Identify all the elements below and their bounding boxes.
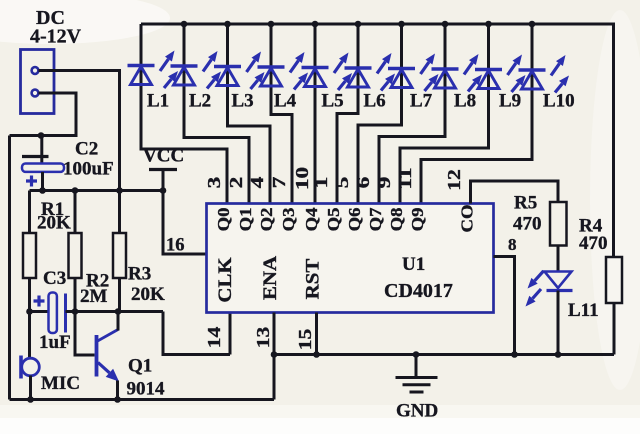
- wire LED anode bus / right edge to R4: [141, 24, 614, 257]
- LED L7: [388, 54, 439, 92]
- svg-text:16: 16: [166, 236, 185, 256]
- wire MIC bottom lead: [29, 376, 32, 400]
- svg-text:7: 7: [269, 177, 290, 189]
- svg-text:2: 2: [226, 177, 247, 189]
- svg-text:11: 11: [395, 167, 416, 189]
- wire R1 top lead: [28, 191, 31, 234]
- wire LED L2 to pin 2: [184, 24, 249, 204]
- node bus/L8 junction: [442, 21, 449, 28]
- wire LED L10 to pin 11: [421, 24, 532, 204]
- LED L8: [432, 54, 483, 92]
- svg-text:Q1: Q1: [128, 356, 152, 377]
- node bus/L6 junction: [355, 21, 362, 28]
- svg-text:L4: L4: [274, 91, 297, 112]
- node MIC/ground junction: [27, 396, 34, 403]
- node bus/L9 junction: [485, 21, 492, 28]
- svg-text:Q2: Q2: [257, 207, 276, 231]
- LED L10: [519, 55, 570, 93]
- capacitor C2 polarity +: [26, 176, 37, 187]
- transistor Q1 base bar: [95, 335, 99, 377]
- svg-text:R3: R3: [128, 264, 151, 285]
- wire pin15 (RST) lead: [315, 313, 318, 355]
- wire DC+ to V+ rail: [39, 71, 120, 191]
- op-amp U1 CD4017 body: [207, 204, 494, 313]
- wire LED L8 to pin 6: [379, 24, 445, 204]
- svg-text:Q3: Q3: [279, 207, 298, 231]
- microphone MIC body: [22, 358, 40, 376]
- background light top-left patch: [0, 0, 170, 44]
- transistor Q1 collector stroke: [98, 330, 119, 342]
- resistor R5 body: [550, 202, 567, 246]
- svg-text:1: 1: [311, 177, 332, 189]
- svg-text:20K: 20K: [131, 284, 165, 305]
- wire DC- to ground-left rail: [10, 93, 77, 136]
- LED L6: [345, 53, 396, 91]
- wire LED L3 to pin 4: [228, 24, 271, 204]
- svg-text:10: 10: [292, 167, 313, 190]
- svg-text:Q9: Q9: [408, 207, 427, 231]
- resistor R3 body: [113, 233, 126, 278]
- node bus/L4 junction: [268, 21, 275, 28]
- wire L11 to ground: [557, 291, 560, 355]
- LED L1: [128, 51, 179, 89]
- svg-text:470: 470: [513, 214, 542, 235]
- wire Q1 base lead: [75, 312, 95, 356]
- wire bottom-left ground rail: [10, 398, 275, 401]
- node R1/C3 junction: [26, 308, 33, 315]
- svg-text:GND: GND: [396, 401, 438, 422]
- LED L3: [214, 52, 265, 90]
- svg-text:ENA: ENA: [260, 255, 281, 300]
- wire LED L9 to pin 9: [400, 24, 489, 204]
- node GND junction: [413, 351, 420, 358]
- node pin8/ground junction: [511, 351, 518, 358]
- svg-text:L8: L8: [454, 91, 476, 112]
- svg-text:Q4: Q4: [302, 207, 321, 231]
- wire C2 bottom lead: [41, 172, 44, 191]
- svg-text:L11: L11: [568, 300, 599, 321]
- svg-text:20K: 20K: [37, 213, 71, 234]
- node emitter/ground junction: [114, 396, 121, 403]
- svg-text:L5: L5: [322, 91, 344, 112]
- node bus/L3 junction: [224, 21, 231, 28]
- wire R3 bottom lead: [118, 278, 121, 312]
- wire C2 top lead: [40, 136, 43, 164]
- svg-text:3: 3: [204, 177, 225, 189]
- svg-text:C3: C3: [43, 268, 66, 289]
- LED L2: [171, 51, 222, 89]
- wire V+ rail: [30, 189, 164, 192]
- wire R4 bottom lead: [613, 303, 616, 355]
- svg-text:CD4017: CD4017: [384, 280, 453, 302]
- wire pin13 (ENA) lead: [273, 313, 276, 400]
- wire C3 left lead: [30, 310, 49, 313]
- svg-text:L1: L1: [147, 91, 169, 112]
- node VCC junction: [160, 187, 167, 194]
- svg-text:14: 14: [205, 327, 225, 349]
- svg-text:CLK: CLK: [215, 257, 236, 303]
- connector J1 pin + (top circle): [32, 67, 39, 74]
- node bus/L10 junction: [529, 21, 536, 28]
- wire pin12 (CO) to R5: [471, 181, 559, 204]
- wire left edge (ground down-left): [8, 136, 11, 400]
- node R3/collector junction: [115, 308, 122, 315]
- svg-text:Q8: Q8: [387, 207, 406, 231]
- svg-text:L2: L2: [189, 91, 211, 112]
- node DC+/R3 junction: [116, 187, 123, 194]
- wire Q1 emitter lead: [116, 381, 119, 400]
- capacitor C2 bottom plate (hollow +): [22, 164, 64, 172]
- wire R1 bottom lead: [28, 278, 31, 312]
- svg-text:15: 15: [296, 329, 316, 351]
- svg-text:12: 12: [445, 169, 465, 191]
- svg-text:4-12V: 4-12V: [30, 26, 82, 48]
- svg-text:L6: L6: [364, 91, 386, 112]
- wire to pin14 (CLK): [163, 312, 230, 355]
- svg-text:Q6: Q6: [345, 207, 364, 231]
- svg-text:Q7: Q7: [366, 207, 385, 231]
- wire pin14 lead: [229, 313, 232, 355]
- svg-text:U1: U1: [402, 254, 425, 275]
- svg-text:13: 13: [254, 327, 274, 349]
- node bus/L7 junction: [398, 21, 405, 28]
- node bus/L2 junction: [181, 21, 188, 28]
- node bus/L5 junction: [312, 21, 319, 28]
- resistor R4 body: [606, 257, 622, 303]
- node R2 top junction: [72, 187, 79, 194]
- wire LED L6 to pin 1: [337, 24, 358, 204]
- svg-text:9014: 9014: [127, 379, 166, 400]
- node C2/V+ junction: [39, 187, 46, 194]
- capacitor C2 top plate (solid): [22, 155, 49, 158]
- ground GND hatches: [396, 378, 438, 393]
- svg-text:4: 4: [247, 176, 268, 188]
- wire LED L7 to pin 5: [358, 24, 402, 204]
- svg-text:470: 470: [579, 233, 608, 254]
- connector J1 pin - (bottom circle): [32, 90, 39, 97]
- svg-text:8: 8: [508, 235, 517, 254]
- node C2 top junction: [38, 132, 45, 139]
- LED L9: [475, 55, 526, 93]
- svg-text:CO: CO: [457, 204, 476, 232]
- wire R2-R3 horizontal: [75, 310, 163, 313]
- connector J1 (DC input): [21, 50, 55, 114]
- svg-text:Q0: Q0: [214, 207, 233, 231]
- wire ground mid rail: [274, 353, 614, 356]
- svg-text:L3: L3: [232, 91, 254, 112]
- resistor R2 body: [69, 233, 82, 278]
- wire R3 top lead: [118, 191, 121, 234]
- wire R5 to L11: [557, 246, 560, 273]
- node R2/C3/base junction: [72, 308, 79, 315]
- svg-text:2M: 2M: [80, 286, 108, 307]
- capacitor C3 left plate (hollow +): [49, 293, 57, 334]
- ground GND stem: [415, 355, 418, 377]
- LED L5: [302, 53, 353, 91]
- svg-text:L10: L10: [543, 91, 575, 112]
- svg-text:6: 6: [353, 177, 374, 189]
- microphone MIC back plate: [19, 356, 23, 379]
- svg-text:MIC: MIC: [41, 373, 80, 394]
- svg-text:RST: RST: [303, 258, 324, 299]
- node pin13/ground junction: [271, 351, 278, 358]
- wire pin16 (VDD) to IC: [163, 191, 207, 255]
- svg-text:L9: L9: [499, 91, 521, 112]
- capacitor C3 polarity +: [34, 296, 45, 307]
- wire VCC stem: [162, 170, 165, 191]
- wire LED L5 / pin 10 lead: [314, 24, 317, 204]
- wire LED L1 to pin 3: [141, 24, 227, 204]
- node pin15/ground junction: [313, 351, 320, 358]
- LED L11: [526, 271, 573, 307]
- background white bottom band: [0, 418, 640, 434]
- VCC symbol bar: [149, 168, 177, 171]
- wire LED L4 to pin 7: [271, 24, 292, 204]
- wire MIC top lead: [28, 312, 31, 359]
- svg-text:100uF: 100uF: [63, 159, 114, 180]
- LED L4: [258, 52, 309, 90]
- svg-text:Q1: Q1: [236, 208, 255, 232]
- svg-text:5: 5: [332, 177, 353, 189]
- resistor R1 body: [23, 233, 36, 278]
- wire C3 right lead: [66, 310, 76, 313]
- svg-text:1uF: 1uF: [39, 332, 71, 353]
- svg-text:R5: R5: [514, 193, 537, 214]
- transistor Q1 emitter stroke with arrow: [98, 363, 119, 382]
- svg-text:C2: C2: [75, 139, 98, 160]
- svg-text:9: 9: [374, 177, 395, 189]
- capacitor C3 right plate (solid): [64, 294, 67, 333]
- node L11/ground junction: [555, 351, 562, 358]
- wire pin8 (VSS) lead: [494, 257, 515, 355]
- wire R2 bottom lead: [74, 278, 77, 312]
- wire R2 top lead: [74, 191, 77, 234]
- svg-text:Q5: Q5: [324, 207, 343, 231]
- wire Q1 collector lead: [117, 312, 120, 331]
- svg-text:L7: L7: [410, 91, 433, 112]
